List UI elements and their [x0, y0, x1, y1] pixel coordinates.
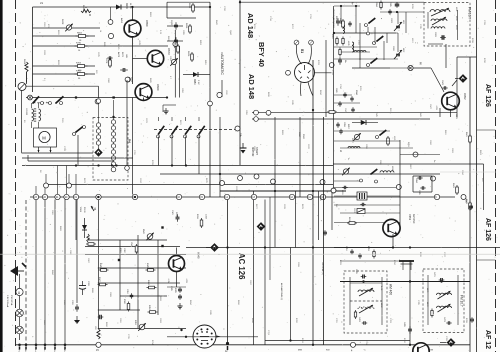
- node test point coupling: [235, 126, 240, 131]
- node test point: [95, 99, 100, 104]
- coil L602 variable: [431, 19, 447, 21]
- svg-text:-0.2V: -0.2V: [138, 40, 140, 45]
- wire x400 vertical: [399, 140, 401, 230]
- wire FM IF internals: [427, 275, 429, 325]
- coil L605: [352, 42, 354, 52]
- wire: [167, 25, 183, 27]
- resistor inline R642: [456, 187, 459, 193]
- ferrite antenna: [399, 260, 414, 262]
- node junction: [113, 96, 115, 98]
- coil L614: [354, 51, 366, 53]
- capacitor C614: [338, 59, 342, 61]
- svg-text:C310: C310: [126, 289, 128, 294]
- svg-text:C622: C622: [170, 20, 172, 26]
- resistor R604 top: [380, 3, 382, 8]
- resistor R318: [200, 220, 203, 226]
- trimmer R628: [66, 25, 71, 30]
- svg-text:AM OSC: AM OSC: [412, 214, 415, 224]
- node test point: [413, 152, 418, 157]
- connector dashed box R4: [93, 118, 128, 181]
- svg-text:C604: C604: [339, 18, 341, 23]
- resistor R703: [78, 65, 85, 68]
- svg-text:=AUTOMATIC: =AUTOMATIC: [220, 52, 224, 75]
- transistor V650: [124, 20, 141, 37]
- FM IF transformer box lower: [423, 269, 464, 333]
- svg-text:-1.5V: -1.5V: [435, 105, 437, 110]
- resistor inline R643: [469, 203, 472, 209]
- wire transformer feeds: [31, 103, 33, 108]
- wire x127 vertical: [126, 80, 128, 170]
- terminal 15: [97, 329, 100, 339]
- capacitor C615: [361, 203, 363, 207]
- resistor R345: [101, 269, 107, 272]
- resistor R700: [78, 73, 85, 76]
- wire AM rows: [334, 180, 360, 182]
- wire mid verticals extra: [253, 191, 255, 345]
- node x227 terminal: [226, 342, 229, 345]
- trimmer C617: [357, 209, 365, 214]
- capacitor C679: [122, 68, 124, 72]
- svg-text:2.1V: 2.1V: [197, 80, 199, 85]
- svg-text:X673: X673: [125, 3, 128, 9]
- resistor R608: [25, 62, 28, 72]
- faint scan fold lines: [0, 253, 500, 255]
- resistor R546b: [329, 111, 335, 114]
- svg-text:=2F/1F/MF (1): =2F/1F/MF (1): [321, 262, 323, 275]
- node test point y117: [254, 110, 259, 115]
- wire right verticals near transistors: [174, 30, 176, 98]
- wire emitter V660: [143, 98, 145, 101]
- motor M: [39, 131, 50, 142]
- AM IF transformer box: [344, 271, 387, 333]
- terminal 4 bottom: [351, 342, 356, 347]
- wire top rail y7: [33, 6, 211, 8]
- svg-text:B1: B1: [300, 49, 304, 53]
- capacitor C677: [108, 56, 110, 60]
- svg-text:V452: V452: [463, 93, 467, 100]
- trimmer R625: [171, 59, 176, 64]
- svg-text:R602: R602: [77, 33, 83, 35]
- square pad b: [161, 245, 163, 247]
- svg-text:C604: C604: [415, 178, 417, 183]
- wire k rows: [334, 140, 400, 142]
- transformer T1: [32, 109, 34, 121]
- svg-text:R700: R700: [76, 71, 82, 73]
- wire main left vertical bus: [32, 7, 34, 92]
- svg-text:+2V/2.1V(AFT)/2.1V: +2V/2.1V(AFT)/2.1V: [332, 8, 335, 28]
- svg-text:X654: X654: [193, 79, 196, 85]
- svg-text:FM 10.7: FM 10.7: [460, 295, 464, 307]
- wire V650 collector: [132, 7, 134, 20]
- diamond mark AC: [210, 243, 219, 252]
- wire rail y36: [33, 35, 96, 37]
- contact h: [367, 32, 370, 35]
- diode X605: [361, 120, 366, 125]
- svg-text:L612: L612: [402, 48, 404, 52]
- node junction: [396, 11, 398, 13]
- wire terminal bus y197: [30, 196, 455, 198]
- wire right rails mid: [456, 57, 458, 117]
- resistor R341: [88, 243, 94, 246]
- svg-text:5k: 5k: [261, 60, 263, 62]
- svg-text:V673: V673: [167, 48, 171, 55]
- coil L604: [380, 171, 394, 173]
- resistor R343: [127, 304, 130, 310]
- FM IF transformer dashed box: [424, 3, 470, 47]
- diode X661: [82, 225, 87, 230]
- node terminal: [331, 188, 336, 193]
- switch S1c: [60, 102, 63, 105]
- svg-text:C678: C678: [105, 58, 107, 64]
- node test point pg: [408, 65, 413, 70]
- wire mid verticals: [219, 117, 221, 197]
- terminal circles row: [33, 194, 38, 199]
- resistor R345a: [148, 269, 154, 272]
- wire plug leads: [296, 45, 301, 64]
- svg-text:K: K: [340, 149, 342, 153]
- svg-text:R626: R626: [187, 51, 189, 57]
- node test point left of B1: [286, 70, 291, 75]
- transistor V453: [383, 219, 400, 236]
- wire vertical bus x476: [476, 0, 478, 352]
- wire y340: [265, 340, 410, 342]
- wire automatic vertical: [221, 80, 223, 97]
- terminal circles upper: [44, 183, 49, 188]
- wire y164 right extension: [333, 163, 484, 165]
- node junctions y281: [362, 280, 364, 282]
- capacitor C602 bold: [441, 35, 443, 40]
- wire vertical x326: [325, 40, 327, 117]
- resistor R618: [349, 222, 355, 225]
- resistor R347: [100, 283, 106, 286]
- coil L461: [358, 290, 374, 292]
- wire box top: [167, 1, 210, 3]
- capacitor cluster below V453: [350, 250, 354, 252]
- svg-text:V660: V660: [156, 84, 160, 91]
- resistor R611: [339, 50, 341, 55]
- svg-text:C641: C641: [335, 88, 337, 93]
- svg-text:3.8V 100mA: 3.8V 100mA: [6, 295, 9, 308]
- node test point: [111, 167, 116, 172]
- coil L606: [343, 25, 345, 34]
- diamond bottom right: [447, 338, 456, 347]
- wire IF can internals: [457, 10, 459, 40]
- svg-text:C302: C302: [123, 248, 125, 253]
- svg-text:110/220: 110/220: [25, 108, 27, 116]
- diamond bottom mid: [257, 222, 266, 231]
- ground C331: [76, 316, 78, 320]
- wire bus y281: [340, 281, 470, 283]
- svg-text:P10/12.5A: P10/12.5A: [10, 295, 13, 306]
- wire mains wiring: [77, 135, 79, 165]
- capacitor C476 corner: [470, 318, 474, 320]
- transistor V431 bottom: [413, 343, 429, 352]
- wire rail y28: [33, 27, 101, 29]
- trimmer R352: [139, 324, 145, 330]
- wire B1 down leads: [300, 82, 303, 96]
- resistor R546: [135, 246, 138, 252]
- ground mid: [165, 108, 167, 111]
- node test point: [173, 42, 178, 47]
- contact column a: [96, 99, 100, 103]
- speaker plug symbol: [10, 266, 18, 276]
- wire diamond lead: [455, 78, 459, 80]
- bottom terminals: [18, 344, 21, 347]
- socket contact a: [294, 40, 299, 45]
- diode X341: [87, 234, 90, 242]
- coil L603: [431, 27, 445, 29]
- svg-text:R343: R343: [123, 299, 125, 304]
- wire x265 vertical: [264, 200, 266, 345]
- svg-text:V453: V453: [408, 214, 412, 221]
- svg-text:AUX/AM/C/EAV (2): AUX/AM/C/EAV (2): [280, 283, 283, 300]
- node test point ground: [217, 92, 222, 97]
- svg-text:R4: R4: [128, 139, 132, 143]
- wire vertical x331: [333, 6, 335, 188]
- wire bus y165: [22, 165, 333, 167]
- svg-text:11.5V: 11.5V: [129, 3, 131, 9]
- wire bus y158: [22, 157, 133, 159]
- svg-text:LS: LS: [40, 2, 43, 5]
- capacitor C331: [75, 306, 79, 308]
- switch FM c: [371, 58, 377, 63]
- svg-text:R628: R628: [61, 19, 63, 25]
- switch FM b: [377, 36, 383, 41]
- switch bank middle b: [172, 126, 178, 134]
- wire drop lines to bottom terminals: [25, 200, 27, 345]
- switch bank middle a: [159, 126, 165, 134]
- svg-text:-1.5V: -1.5V: [185, 278, 187, 283]
- connector B1 body: [295, 63, 315, 83]
- capacitor C471: [440, 278, 442, 282]
- wire column a line: [98, 101, 100, 150]
- svg-text:C605: C605: [389, 2, 391, 7]
- svg-text:5500: 5500: [302, 134, 304, 140]
- switch bank middle d: [199, 126, 205, 134]
- coil L472: [437, 306, 452, 308]
- jack U: [16, 288, 23, 295]
- svg-text:C605: C605: [418, 190, 420, 195]
- wire bottom rail y97: [26, 97, 167, 99]
- capacitor C310: [130, 294, 134, 296]
- node junction dots: [111, 164, 113, 166]
- wire bus y191 bold: [220, 190, 346, 192]
- wire bus y247: [186, 247, 500, 249]
- wire column b line: [113, 100, 115, 168]
- svg-text:AD 148: AD 148: [247, 74, 256, 99]
- svg-text:V540: V540: [197, 252, 201, 259]
- ground amp: [179, 303, 181, 306]
- capacitor C607 bold: [395, 3, 400, 5]
- wire vertical bus x240: [239, 0, 241, 165]
- node junction dots on buses: [131, 6, 133, 8]
- resistor R344: [149, 286, 155, 289]
- wire bus y174: [160, 173, 440, 175]
- node dots bottom: [180, 329, 182, 331]
- resistor R350: [150, 311, 156, 314]
- node test point y22: [108, 20, 113, 25]
- wire DIN crossing: [167, 336, 258, 338]
- svg-text:AF 126: AF 126: [484, 84, 491, 107]
- svg-text:C624: C624: [173, 43, 175, 49]
- node junction squares: [75, 96, 77, 98]
- wire rail y74: [33, 73, 96, 75]
- label A arrow: [91, 206, 94, 211]
- svg-text:AC 126: AC 126: [237, 253, 246, 280]
- coil L462: [358, 307, 374, 309]
- resistor L465: [354, 312, 356, 317]
- wire x98 vertical: [98, 200, 100, 330]
- wire switch bank stubs: [158, 117, 160, 121]
- svg-text:A673: A673: [117, 52, 120, 58]
- node test point: [125, 77, 130, 82]
- capacitor C622: [174, 24, 178, 26]
- diamond mark FM: [459, 74, 468, 83]
- contact column b: [111, 120, 115, 124]
- diode X673: [116, 5, 121, 10]
- svg-text:9c: 9c: [347, 158, 349, 160]
- wire dashed margin line left: [15, 0, 17, 346]
- wire x227 vertical: [227, 200, 229, 344]
- resistor inline R641: [469, 136, 472, 142]
- motor box pins: [38, 147, 40, 152]
- svg-text:C657: C657: [298, 132, 300, 138]
- meter M1: [18, 83, 26, 91]
- capacitor C643: [443, 86, 445, 90]
- wire vertical bus x470: [469, 57, 471, 352]
- capacitor C678: [109, 60, 112, 66]
- bandfilter box: [357, 192, 367, 200]
- wire amp rails: [88, 239, 167, 241]
- resistor R471: [431, 311, 433, 316]
- trimmer R540: [147, 234, 153, 240]
- resistor R626: [191, 54, 194, 60]
- wire x290 vertical: [290, 248, 292, 341]
- resistor R610 pair: [336, 39, 338, 44]
- svg-text:R629: R629: [82, 5, 84, 11]
- svg-text:50106: 50106: [83, 207, 85, 213]
- resistor R601 pair: [342, 21, 345, 27]
- svg-text:FM 10.7: FM 10.7: [468, 7, 472, 19]
- capacitor C613: [336, 20, 340, 22]
- wire V540 wiring: [176, 248, 178, 256]
- svg-text:R302: R302: [119, 248, 121, 253]
- trimmer AM: [343, 169, 348, 174]
- capacitor C473: [447, 321, 449, 325]
- resistor R622: [192, 5, 195, 11]
- wire fm weave: [334, 5, 360, 7]
- wire base V673: [133, 58, 148, 60]
- capacitor C467: [362, 275, 364, 279]
- lamp 1: [16, 309, 24, 317]
- svg-text:R656: R656: [185, 23, 187, 29]
- wire FM wiring: [334, 32, 396, 34]
- capacitor C305 pair: [178, 288, 182, 290]
- wire V452 vertical: [450, 110, 452, 117]
- switch S1a: [28, 95, 33, 100]
- svg-text:R703: R703: [76, 63, 82, 65]
- wire coupling dash a: [33, 102, 52, 104]
- capacitor C640: [469, 205, 473, 207]
- node test point: [396, 185, 401, 190]
- diode X654: [193, 72, 198, 77]
- svg-text:AF 126: AF 126: [484, 218, 491, 241]
- wire y105 y110: [252, 111, 457, 113]
- switch mains: [76, 126, 83, 132]
- wire top rail right: [240, 1, 424, 3]
- switch bank middle c: [186, 126, 192, 134]
- wire AM IF internals: [349, 277, 351, 325]
- svg-text:R730: R730: [76, 43, 82, 45]
- capacitor C341: [176, 216, 180, 218]
- resistor R730: [78, 45, 85, 48]
- svg-text:5n: 5n: [433, 160, 435, 162]
- capacitor C332: [79, 288, 86, 289]
- svg-text:R604: R604: [375, 2, 377, 7]
- resistor R624: [177, 46, 180, 52]
- capacitor electrolytic motor: [242, 143, 244, 148]
- capacitor C463: [363, 321, 365, 325]
- wire am osc rows: [334, 247, 393, 249]
- motor box: [34, 128, 57, 147]
- diamond mark connector: [94, 148, 102, 156]
- wire lamp chain: [19, 274, 21, 340]
- resistor R602: [79, 35, 86, 38]
- svg-text:18R: 18R: [125, 54, 127, 58]
- tuning capacitor C606: [396, 53, 400, 55]
- resistor R656: [189, 26, 192, 32]
- wire bus y184: [46, 184, 333, 186]
- svg-text:AM 460: AM 460: [389, 284, 393, 295]
- svg-text:X661: X661: [79, 207, 81, 213]
- svg-text:R644: R644: [355, 90, 357, 95]
- wire x132 down: [132, 98, 134, 195]
- DIN connector: [193, 325, 216, 348]
- capacitor C308: [323, 231, 327, 233]
- capacitor C604 block: [413, 175, 432, 177]
- capacitor cluster fm bottom: [343, 93, 347, 95]
- svg-text:R622: R622: [188, 3, 190, 9]
- svg-text:BFY 40: BFY 40: [257, 42, 266, 67]
- wire V650 emitter to V673: [132, 37, 134, 84]
- wire dashed margin line right: [495, 0, 497, 352]
- svg-text:R601: R601: [335, 16, 337, 21]
- coil L471: [437, 293, 452, 295]
- wire amp verticals: [137, 235, 139, 329]
- svg-text:AF 12: AF 12: [484, 330, 491, 349]
- wire bottom bus: [16, 344, 471, 346]
- capacitor C623: [174, 39, 178, 41]
- wire rail y66: [33, 65, 96, 67]
- capacitor C465: [408, 328, 412, 330]
- capacitor C303: [99, 315, 101, 320]
- coil L601 variable: [430, 10, 450, 13]
- square pad a: [161, 226, 163, 228]
- tuning capacitor C603: [396, 25, 400, 27]
- transistor V452: [442, 92, 460, 110]
- wire vertical bus x210: [209, 2, 211, 197]
- transistor V540: [169, 256, 185, 272]
- svg-text:1k: 1k: [99, 30, 101, 32]
- node test point: [266, 110, 271, 115]
- svg-text:M: M: [42, 135, 46, 140]
- switch S1b: [41, 102, 44, 105]
- transistor V673: [147, 50, 163, 66]
- switch AM a: [371, 169, 377, 174]
- wire x77 vertical: [76, 200, 78, 304]
- socket contact b: [309, 40, 314, 45]
- switch FM a: [369, 18, 375, 23]
